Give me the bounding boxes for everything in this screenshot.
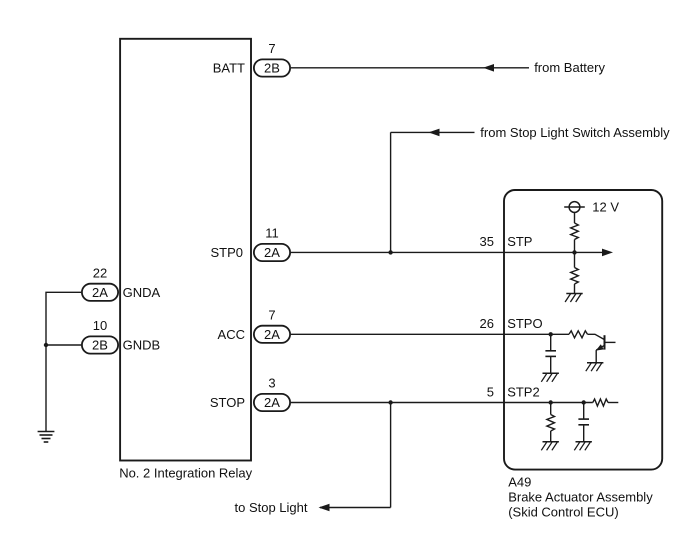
transistor Q1 bar bbox=[604, 335, 606, 349]
svg-text:12 V: 12 V bbox=[592, 200, 619, 215]
junction STP0/switch feed bbox=[388, 250, 392, 254]
capacitor C1 bbox=[545, 350, 556, 352]
arrowhead from Stop Light Switch bbox=[429, 129, 440, 137]
wire R1 to STP node bbox=[574, 240, 576, 253]
svg-text:STPO: STPO bbox=[507, 316, 542, 331]
svg-text:2B: 2B bbox=[264, 61, 280, 76]
junction STPO/C1 bbox=[549, 332, 553, 336]
wire STOP to STP2 bbox=[291, 402, 593, 404]
connector pin 2A (STP0) bbox=[254, 244, 290, 261]
wire Q1 emitter to ground bbox=[595, 350, 597, 363]
junction STP2/C2 bbox=[582, 400, 586, 404]
power source 12 V symbol bbox=[569, 202, 580, 213]
wire STP node to R2 bbox=[574, 252, 576, 267]
junction STOP/stop-light branch bbox=[388, 400, 392, 404]
ground (below R4) bbox=[543, 441, 559, 443]
connector pin 2B (GNDB) bbox=[82, 336, 118, 353]
svg-text:GNDA: GNDA bbox=[123, 285, 161, 300]
wire STP0 to STP bbox=[291, 251, 604, 253]
svg-text:2A: 2A bbox=[264, 327, 280, 342]
ground (below C2) bbox=[576, 441, 592, 443]
wire to stop light vertical bbox=[390, 403, 392, 508]
wire R4 stem bbox=[550, 403, 552, 415]
transistor Q1 base stub bbox=[605, 341, 616, 343]
svg-text:No. 2 Integration Relay: No. 2 Integration Relay bbox=[119, 465, 252, 480]
svg-text:2A: 2A bbox=[264, 395, 280, 410]
resistor R3 (base resistor) bbox=[569, 331, 588, 338]
svg-text:2A: 2A bbox=[264, 245, 280, 260]
svg-text:GNDB: GNDB bbox=[123, 338, 161, 353]
svg-text:3: 3 bbox=[268, 376, 275, 391]
wire R5 stub bbox=[608, 402, 618, 404]
junction STP/12V divider bbox=[572, 250, 576, 254]
wire GNDA to ground bus bbox=[46, 292, 81, 431]
ground (below Q1) bbox=[587, 362, 603, 364]
ground (below C1) bbox=[543, 372, 559, 374]
resistor R4 bbox=[547, 415, 555, 432]
svg-text:from Battery: from Battery bbox=[534, 60, 605, 75]
wire ACC to STPO bbox=[291, 333, 569, 335]
arrowhead to Stop Light bbox=[319, 504, 330, 512]
connector pin 2A (STOP) bbox=[254, 394, 290, 411]
wire C1 to ground bbox=[550, 356, 552, 373]
svg-text:STOP: STOP bbox=[210, 395, 245, 410]
svg-text:ACC: ACC bbox=[218, 327, 245, 342]
transistor Q1 emitter bbox=[596, 345, 604, 350]
svg-text:7: 7 bbox=[268, 41, 275, 56]
wire C1 stem top bbox=[550, 334, 552, 351]
resistor R1 (pull-up) bbox=[571, 223, 579, 240]
wire GNDB to ground bus bbox=[46, 344, 81, 346]
wire C2 stem bbox=[583, 403, 585, 420]
connector pin 2A (ACC) bbox=[254, 326, 290, 343]
svg-text:from Stop Light Switch Assembl: from Stop Light Switch Assembly bbox=[480, 125, 670, 140]
svg-text:Brake Actuator Assembly: Brake Actuator Assembly bbox=[508, 490, 653, 505]
svg-text:35: 35 bbox=[480, 234, 494, 249]
wire R3 to Q1 collector bbox=[588, 334, 605, 339]
svg-text:STP2: STP2 bbox=[507, 385, 540, 400]
ECU box A49 (Brake Actuator Assembly) bbox=[504, 190, 662, 470]
junction ground bus bbox=[44, 343, 48, 347]
wire C2 to ground bbox=[583, 425, 585, 442]
svg-text:STP: STP bbox=[507, 234, 532, 249]
svg-text:2A: 2A bbox=[92, 285, 108, 300]
wire BATT to battery bbox=[291, 67, 529, 69]
svg-text:BATT: BATT bbox=[213, 60, 245, 75]
wire from stop light switch horizontal bbox=[391, 131, 475, 133]
svg-text:(Skid Control ECU): (Skid Control ECU) bbox=[508, 505, 619, 520]
arrowhead STP into ECU bbox=[602, 249, 613, 257]
capacitor C2 bbox=[578, 418, 589, 420]
svg-text:7: 7 bbox=[268, 307, 275, 322]
svg-text:2B: 2B bbox=[92, 338, 108, 353]
connector pin 2B (BATT) bbox=[254, 59, 290, 76]
wire R4 to ground bbox=[550, 431, 552, 442]
svg-text:A49: A49 bbox=[508, 475, 531, 490]
svg-text:to Stop Light: to Stop Light bbox=[235, 500, 308, 515]
transistor Q1 emitter arrowhead bbox=[596, 344, 604, 350]
resistor R2 (pull-down) bbox=[571, 268, 579, 285]
svg-text:26: 26 bbox=[480, 316, 494, 331]
svg-text:11: 11 bbox=[265, 226, 279, 241]
wire stop light switch vertical bbox=[390, 132, 392, 252]
svg-text:22: 22 bbox=[93, 265, 107, 280]
wire R2 to ground bbox=[574, 284, 576, 294]
connector pin 2A (GNDA) bbox=[82, 284, 118, 301]
svg-text:STP0: STP0 bbox=[210, 245, 243, 260]
arrowhead from Battery bbox=[483, 64, 494, 72]
ground (earth, bottom left) bbox=[38, 431, 55, 433]
svg-text:10: 10 bbox=[93, 318, 107, 333]
junction STP2/R4 bbox=[549, 400, 553, 404]
wire to stop light horizontal bbox=[320, 507, 391, 509]
relay box: No. 2 Integration Relay bbox=[120, 39, 251, 461]
wire 12V to resistor bbox=[574, 212, 576, 223]
svg-text:5: 5 bbox=[487, 385, 494, 400]
ground (below R2) bbox=[566, 293, 582, 295]
resistor R5 bbox=[593, 399, 608, 406]
